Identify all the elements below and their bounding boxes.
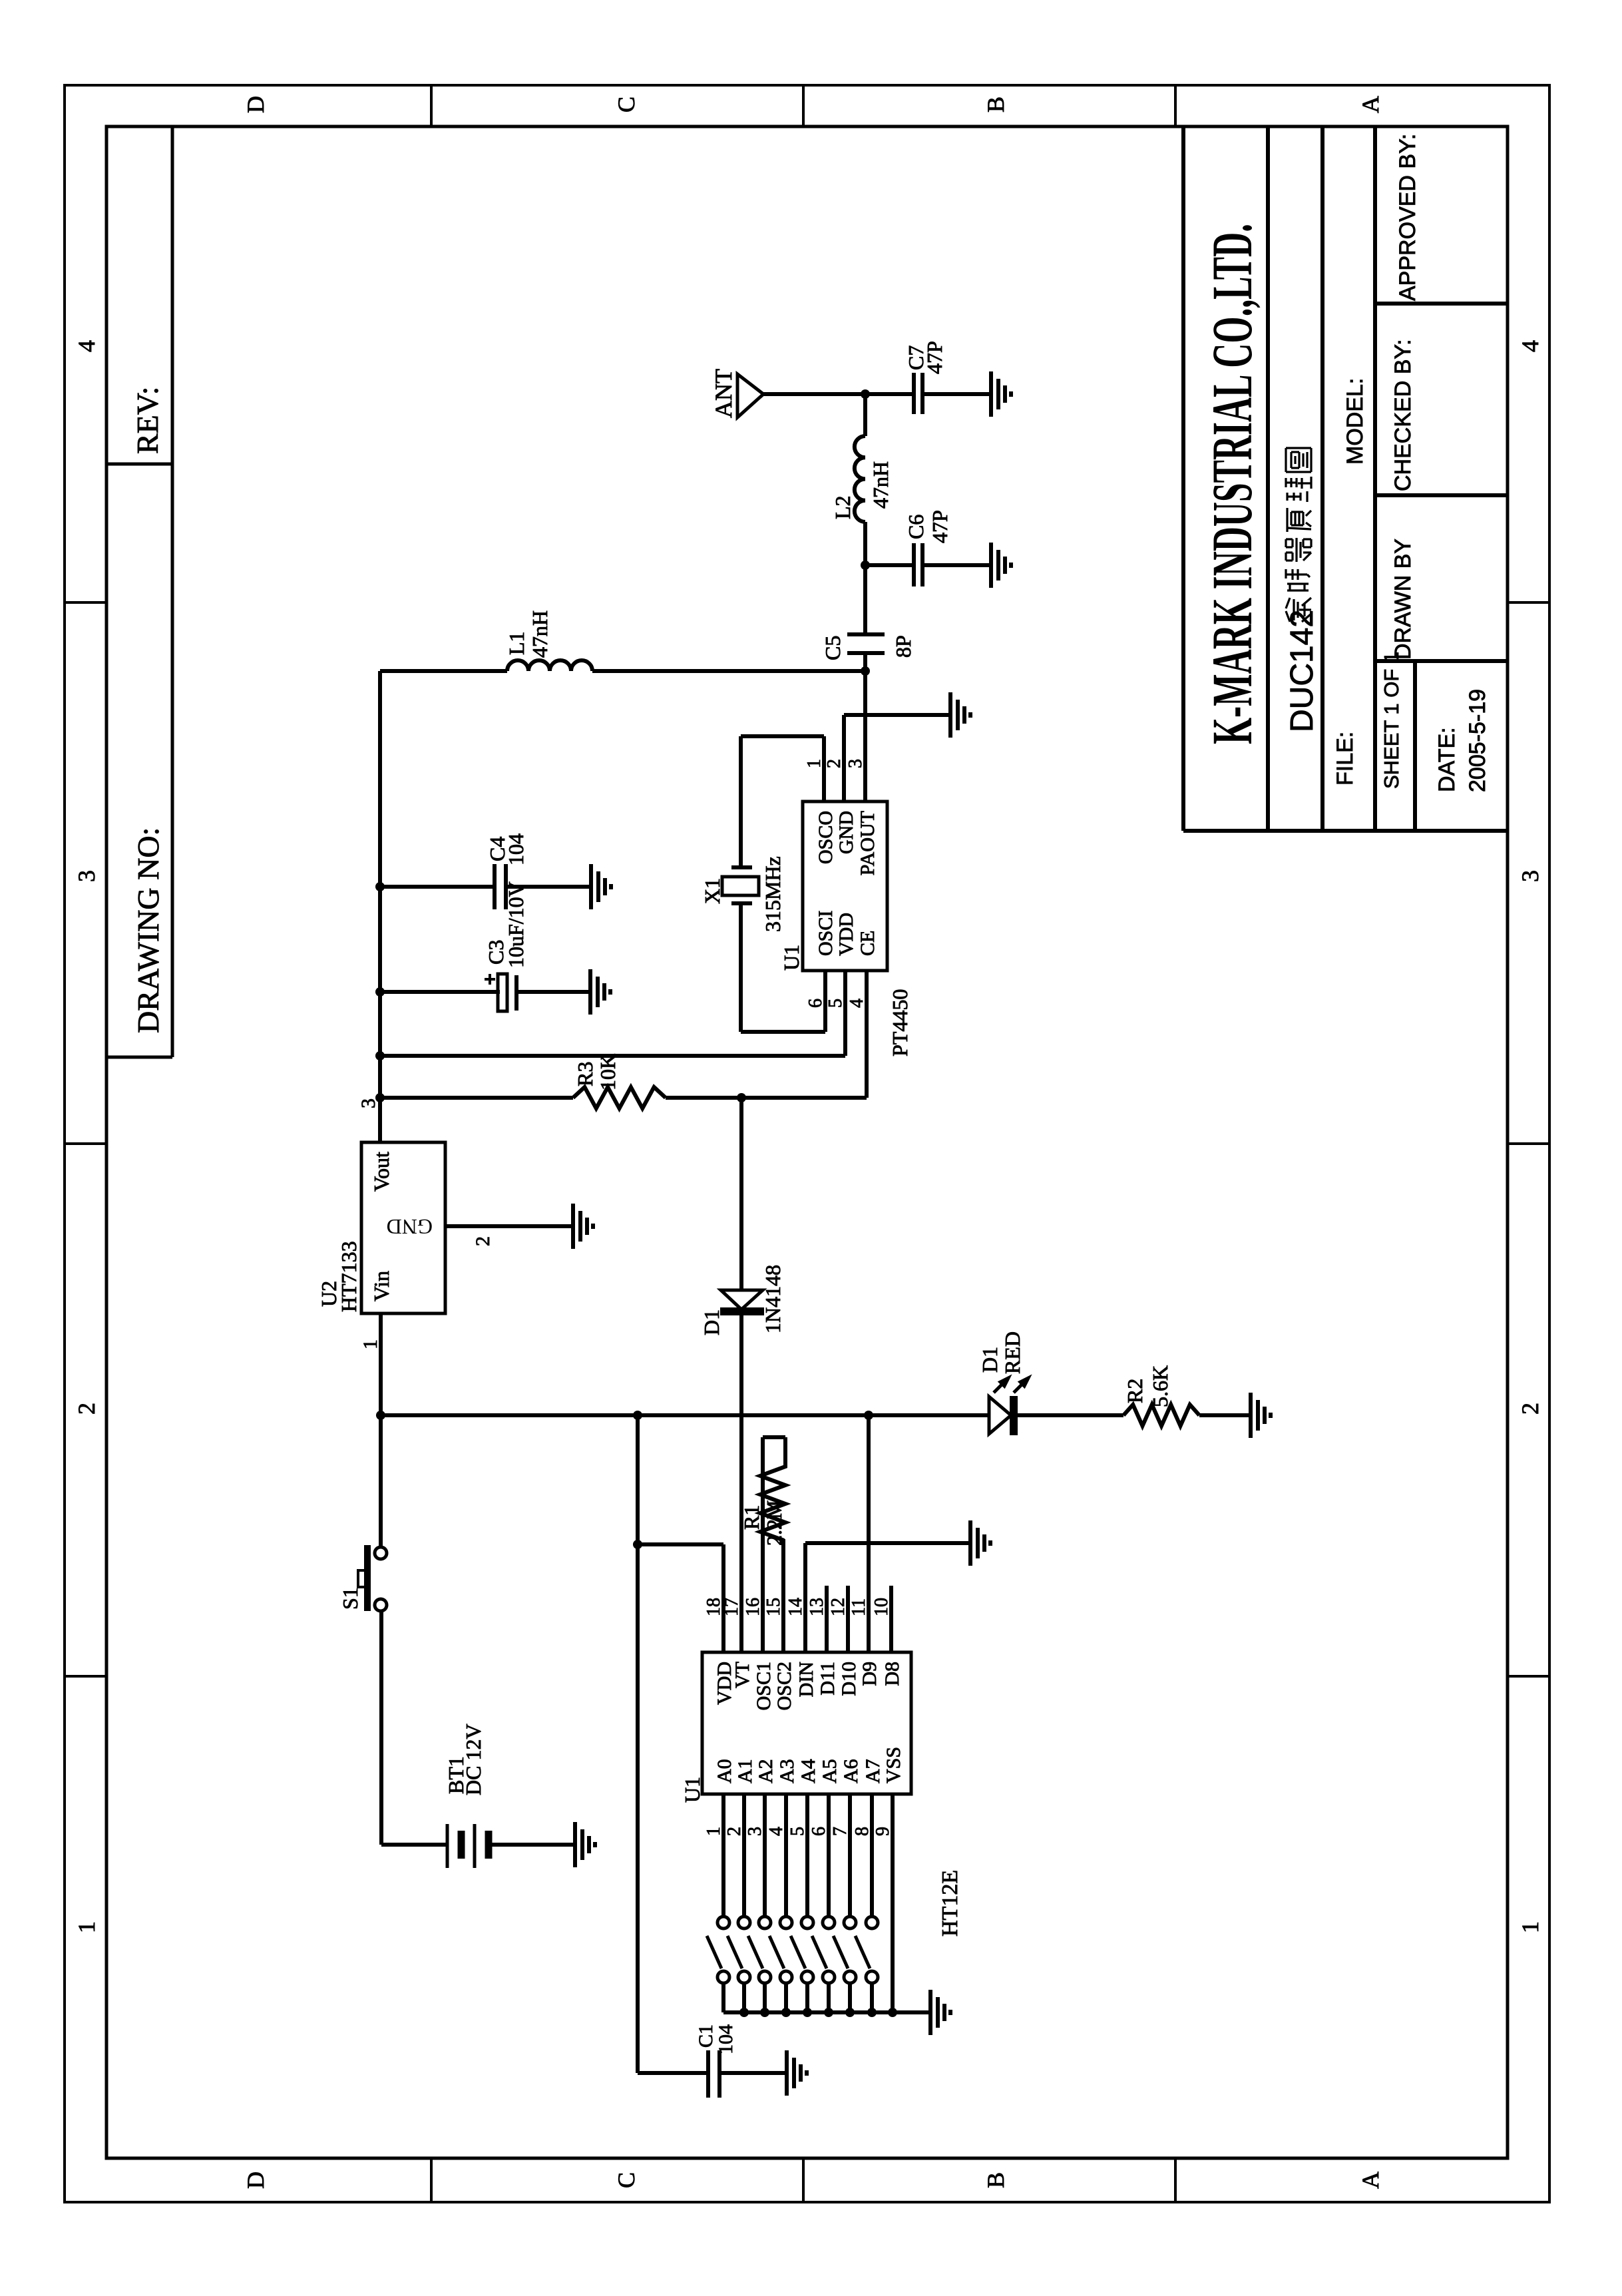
svg-text:RED: RED [1000, 1331, 1024, 1374]
wire pin11 D9 [867, 1415, 871, 1652]
svg-text:GND: GND [835, 811, 857, 854]
svg-text:1: 1 [1517, 1921, 1543, 1933]
svg-text:1: 1 [704, 1827, 724, 1836]
wire pin12 stub [846, 1586, 850, 1652]
switch S1 plunger [358, 1570, 367, 1587]
wire D1 to junction [739, 1098, 743, 1290]
switch S1 contact B [375, 1599, 387, 1611]
diode D1 cathode bar [720, 1307, 764, 1315]
svg-text:Vin: Vin [369, 1271, 393, 1301]
svg-text:12: 12 [828, 1598, 849, 1616]
svg-text:6: 6 [809, 1827, 829, 1836]
svg-text:D9: D9 [859, 1662, 881, 1686]
zone tick bottom [1508, 1675, 1549, 1678]
svg-text:A7: A7 [862, 1759, 884, 1783]
svg-text:1: 1 [73, 1921, 100, 1933]
ground PT4450 [948, 692, 952, 738]
svg-text:MODEL:: MODEL: [1342, 378, 1368, 465]
svg-text:2: 2 [472, 1236, 494, 1246]
wire pin16 OSC1 [761, 1437, 765, 1652]
wire OSCI [823, 971, 827, 1032]
svg-text:1: 1 [359, 1339, 381, 1349]
svg-text:A1: A1 [734, 1759, 756, 1783]
svg-text:C: C [613, 97, 640, 113]
svg-text:16: 16 [743, 1598, 763, 1616]
wire VDD vertical [380, 1054, 845, 1058]
svg-text:OSC2: OSC2 [773, 1662, 795, 1710]
svg-text:D: D [242, 96, 269, 113]
svg-text:14: 14 [785, 1598, 806, 1616]
svg-text:A2: A2 [755, 1759, 777, 1783]
svg-text:A5: A5 [819, 1759, 841, 1783]
svg-text:C1: C1 [695, 2024, 717, 2048]
svg-text:D1: D1 [978, 1347, 1002, 1373]
ground C6 [989, 543, 993, 588]
node VDD18 junction [633, 1540, 642, 1549]
inductor L2 [855, 436, 865, 522]
wire R3 top [380, 1096, 573, 1100]
svg-text:15: 15 [763, 1598, 784, 1616]
svg-text:3: 3 [73, 870, 100, 882]
wire pin13 stub [825, 1586, 829, 1652]
svg-text:2.2M: 2.2M [762, 1500, 786, 1546]
svg-text:10uF/10V: 10uF/10V [504, 881, 528, 968]
node C1 branch junction [633, 1411, 642, 1420]
svg-text:D: D [242, 2172, 269, 2189]
resistor R3 [573, 1087, 666, 1108]
svg-text:A0: A0 [713, 1759, 735, 1783]
svg-text:HT7133: HT7133 [337, 1241, 361, 1312]
svg-text:OSCI: OSCI [815, 911, 837, 956]
wire C1 top [638, 2071, 708, 2075]
wire VDD to U1 [843, 971, 847, 1056]
svg-text:47P: 47P [922, 341, 946, 374]
svg-text:R1: R1 [739, 1505, 763, 1530]
svg-text:1N4148: 1N4148 [761, 1265, 785, 1333]
svg-text:Vout: Vout [369, 1152, 393, 1192]
ground battery [573, 1822, 577, 1867]
switch S1 bar [364, 1545, 371, 1611]
svg-text:3: 3 [357, 1098, 379, 1108]
svg-text:3: 3 [1517, 870, 1543, 882]
node Vin junction [376, 1411, 385, 1420]
wire VDD18 to U1 [721, 1544, 725, 1652]
svg-text:GND: GND [387, 1215, 433, 1239]
resistor R1 [760, 1437, 785, 1540]
svg-text:U1: U1 [680, 1777, 704, 1803]
node C6 junction [861, 561, 870, 570]
wire L2 to ANT [863, 394, 867, 436]
wire switch common [723, 2010, 930, 2014]
svg-text:5.6K: 5.6K [1148, 1365, 1172, 1407]
svg-text:2: 2 [824, 759, 845, 768]
svg-text:3: 3 [845, 759, 866, 768]
wire GND2 horizontal [842, 715, 846, 802]
wire A0-A7 stubs [721, 1794, 725, 1917]
wire R2 to ground [1199, 1413, 1251, 1417]
svg-text:4: 4 [73, 340, 100, 352]
wire pin14 DIN [803, 1543, 807, 1652]
wire ANT feed [763, 392, 865, 396]
zone tick top [65, 1675, 106, 1678]
svg-text:47nH: 47nH [869, 461, 893, 509]
capacitor C1 plates [706, 2050, 710, 2098]
wire DIN to ground [805, 1541, 970, 1545]
encoder U1 box [702, 1652, 911, 1794]
wire L1 top [380, 669, 507, 673]
capacitor C3 minus plate [514, 975, 518, 1011]
svg-text:HT12E: HT12E [938, 1870, 962, 1937]
svg-text:L1: L1 [505, 631, 528, 655]
svg-text:R3: R3 [573, 1062, 597, 1086]
regulator U2 box [361, 1142, 445, 1313]
ground DIN [968, 1520, 972, 1566]
svg-text:D8: D8 [881, 1662, 903, 1686]
node R3 junction [375, 1093, 385, 1102]
wire C7 top [865, 392, 914, 396]
border inner frame [106, 126, 1508, 2158]
wire switch to common [721, 1983, 725, 2012]
wire U2 GND [445, 1224, 573, 1228]
svg-text:A: A [1357, 2172, 1384, 2189]
wire VT to D1 [739, 1311, 743, 1652]
led D1 triangle [989, 1397, 1011, 1434]
wire C6 top [865, 563, 914, 567]
svg-text:4: 4 [766, 1827, 787, 1836]
svg-text:104: 104 [715, 2024, 737, 2054]
svg-text:7: 7 [830, 1827, 851, 1836]
wire C5 to L2 [863, 522, 867, 634]
svg-text:PAOUT: PAOUT [857, 811, 879, 875]
svg-text:B: B [982, 97, 1009, 113]
svg-text:A4: A4 [797, 1759, 819, 1783]
ground switches [928, 1990, 932, 2035]
wire supply vertical [380, 1413, 989, 1417]
wire LED to R2 [1014, 1413, 1123, 1417]
svg-text:OSCO: OSCO [815, 811, 837, 864]
wire CE to U1 [865, 971, 869, 1098]
svg-text:C: C [613, 2172, 640, 2188]
capacitor C7 plates [912, 373, 916, 414]
svg-text:6: 6 [805, 999, 826, 1008]
svg-text:2: 2 [724, 1827, 745, 1836]
node D9 branch junction [864, 1411, 873, 1420]
ground C3 [588, 969, 592, 1015]
wire battery top [381, 1843, 446, 1847]
wire node to C1 [636, 1415, 640, 2073]
ground C7 [989, 371, 993, 417]
wire C4 bottom [506, 885, 591, 889]
svg-text:DRAWN BY: DRAWN BY [1390, 539, 1416, 660]
wire VSS [891, 1794, 895, 2012]
wire Vout rail [378, 671, 382, 1142]
svg-text:DIN: DIN [795, 1662, 817, 1697]
svg-text:R2: R2 [1123, 1379, 1147, 1403]
svg-text:K-MARK INDUSTRIAL CO.,LTD.: K-MARK INDUSTRIAL CO.,LTD. [1200, 224, 1264, 744]
svg-text:PT4450: PT4450 [888, 989, 912, 1056]
crystal X1 plates [731, 901, 752, 905]
REV box [106, 1056, 172, 1059]
switch S1 contact A [375, 1547, 387, 1559]
svg-text:A: A [1357, 96, 1384, 113]
wire OSCO [822, 736, 826, 802]
antenna ANT symbol [737, 374, 763, 417]
ground C4 [589, 864, 593, 909]
led D1 arrows [994, 1378, 1028, 1393]
svg-text:D1: D1 [700, 1309, 723, 1335]
node switch common junctions [739, 2008, 749, 2017]
wire VDD18 down [638, 1542, 723, 1546]
svg-text:VT: VT [731, 1662, 753, 1688]
wire crystal right [739, 736, 743, 867]
svg-text:VDD: VDD [835, 913, 857, 956]
svg-text:47nH: 47nH [528, 610, 552, 658]
wire crystal left [739, 903, 743, 1032]
svg-text:2005-5-19: 2005-5-19 [1465, 689, 1490, 792]
capacitor C3 plus plate [498, 974, 507, 1011]
ground C1 [785, 2050, 789, 2096]
svg-text:X1: X1 [700, 878, 724, 904]
svg-text:5: 5 [825, 999, 846, 1008]
ground U2 [571, 1204, 575, 1249]
title block grid [1183, 829, 1508, 833]
wire pin15 OSC2 [781, 1539, 785, 1652]
resistor R2 [1123, 1405, 1199, 1426]
svg-text:DUC142: DUC142 [1285, 610, 1320, 732]
svg-text:C6: C6 [904, 515, 928, 539]
svg-text:4: 4 [1517, 340, 1543, 352]
node D1 junction [737, 1093, 746, 1102]
ground R2 [1249, 1393, 1253, 1438]
switch blades [707, 1936, 721, 1968]
svg-text:APPROVED BY:: APPROVED BY: [1395, 134, 1420, 301]
svg-text:OSC1: OSC1 [753, 1662, 775, 1710]
switch contacts [717, 1917, 729, 1929]
capacitor C4 plates [493, 864, 497, 909]
node ANT junction [861, 389, 870, 399]
svg-text:REV:: REV: [130, 387, 164, 454]
battery BT1 plates [446, 1824, 449, 1868]
led D1 cathode bar [1010, 1396, 1018, 1435]
wire pin10 stub [889, 1586, 893, 1652]
wire C3 bottom [516, 990, 590, 994]
svg-text:9: 9 [873, 1827, 893, 1836]
wire C4 top [380, 885, 495, 889]
svg-text:D11: D11 [817, 1662, 839, 1696]
svg-text:L2: L2 [831, 495, 855, 519]
wire pin18 stub [721, 1544, 725, 1652]
node C4 junction [375, 882, 385, 891]
inductor L1 [507, 660, 592, 671]
diode D1 triangle [721, 1290, 763, 1309]
zone tick right [430, 85, 433, 126]
zone tick left [430, 2158, 433, 2202]
wire PAOUT [863, 671, 867, 802]
svg-text:47P: 47P [928, 510, 952, 543]
svg-text:SHEET 1 OF 1: SHEET 1 OF 1 [1380, 652, 1403, 789]
wire L1 bottom [592, 669, 865, 673]
node C3 junction [375, 987, 385, 997]
svg-text:DRAWING NO:: DRAWING NO: [131, 827, 165, 1033]
svg-text:2: 2 [73, 1403, 100, 1415]
wire OSC1 corner [763, 1435, 785, 1439]
wire OSCO vertical [741, 734, 824, 738]
svg-text:A6: A6 [840, 1759, 862, 1783]
wire GND2 vertical [844, 713, 950, 717]
wire C6 bottom [922, 563, 991, 567]
capacitor C6 plates [912, 543, 916, 586]
svg-text:D10: D10 [838, 1662, 860, 1696]
wire C7 bottom [922, 392, 991, 396]
svg-text:10: 10 [871, 1598, 892, 1616]
wire S1 to Vin [379, 1313, 383, 1547]
capacitor C5 plates [847, 651, 885, 655]
svg-text:1: 1 [804, 759, 825, 768]
wire C3 top [380, 990, 500, 994]
crystal X1 body [722, 877, 759, 895]
svg-text:CHECKED BY:: CHECKED BY: [1390, 339, 1416, 491]
svg-text:2: 2 [1517, 1403, 1543, 1415]
svg-text:VSS: VSS [883, 1747, 905, 1783]
svg-text:ANT: ANT [710, 369, 737, 418]
wire battery bottom [490, 1843, 575, 1847]
node VDD junction [375, 1051, 385, 1060]
svg-text:315MHz: 315MHz [761, 856, 785, 932]
svg-text:CE: CE [857, 931, 879, 956]
svg-text:104: 104 [504, 833, 528, 865]
svg-text:10K: 10K [596, 1054, 620, 1090]
svg-text:DC 12V: DC 12V [461, 1723, 485, 1795]
svg-text:8P: 8P [891, 635, 915, 658]
svg-text:C5: C5 [821, 636, 845, 660]
svg-text:3: 3 [745, 1827, 765, 1836]
svg-text:U1: U1 [779, 945, 803, 971]
capacitor C3 plus sign [485, 974, 495, 985]
svg-text:11: 11 [849, 1598, 869, 1616]
svg-text:8: 8 [852, 1827, 873, 1836]
wire battery to S1 [379, 1610, 383, 1845]
wire R3 to CE corner [666, 1096, 867, 1100]
svg-text:5: 5 [787, 1827, 808, 1836]
wire OSCI vertical [741, 1030, 825, 1034]
svg-text:4: 4 [847, 999, 867, 1008]
svg-text:A3: A3 [776, 1759, 798, 1783]
svg-text:13: 13 [807, 1598, 827, 1616]
transmitter U1 box [803, 802, 887, 971]
node RF junction [861, 666, 870, 676]
wire C1 bottom [719, 2071, 787, 2075]
svg-text:B: B [982, 2172, 1009, 2188]
svg-text:FILE:: FILE: [1332, 732, 1358, 786]
svg-text:DATE:: DATE: [1434, 727, 1460, 792]
wire RF to C5 [863, 653, 867, 671]
svg-text:S1: S1 [338, 1587, 362, 1610]
